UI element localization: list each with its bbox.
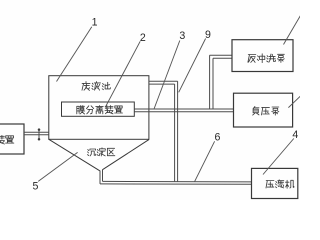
filter press box 4 [252,168,298,198]
svg-text:1: 1 [92,17,98,29]
vacuum pump box [234,93,293,127]
label: jiayao zhuangzhi (dosing device) [0,135,14,144]
leader line 4 [263,139,294,175]
svg-text:6: 6 [214,132,220,144]
label: mofenli zhuangzhi (membrane separation device) [77,106,123,114]
svg-text:3: 3 [179,30,185,42]
leader line 3 [154,41,180,110]
tank funnel left slope [49,139,100,171]
dosing valve symbol [38,129,40,139]
dosing device box [0,124,24,154]
tank 1 waste-liquid pool box [49,76,149,140]
svg-text:5: 5 [32,180,38,192]
label: feiyechi (waste liquid pool) [82,82,111,91]
leader line 6 [195,141,215,181]
dosing pipe [24,131,49,133]
backwash pump pipe [210,54,232,56]
label: yalvji (filter press) [266,180,294,188]
membrane separation device 2 box [62,102,135,116]
label: chendianqu (sedimentation zone) [88,148,115,156]
leader line 5 [38,152,77,181]
svg-text:4: 4 [292,129,298,141]
leader line 2 [106,41,141,107]
label: fuyabeng (vacuum pump) [253,107,279,116]
funnel neck pipe [99,171,101,184]
leader line 1 [57,27,92,82]
pipe 6 sludge drain to filter press [103,180,252,183]
pipe 9 drain bypass bridge [149,80,178,82]
leader line 9 [179,39,206,93]
tank funnel right slope [103,140,149,170]
label: fanchongxibeng (backwash pump) [248,54,284,63]
pipe 3 membrane suction line [134,108,233,110]
leader line 7 off-canvas [284,16,301,45]
svg-text:9: 9 [205,29,211,41]
svg-text:2: 2 [140,32,146,44]
leader line 8 off-canvas vacuum pump [288,96,300,108]
backwash pump box [232,40,293,72]
